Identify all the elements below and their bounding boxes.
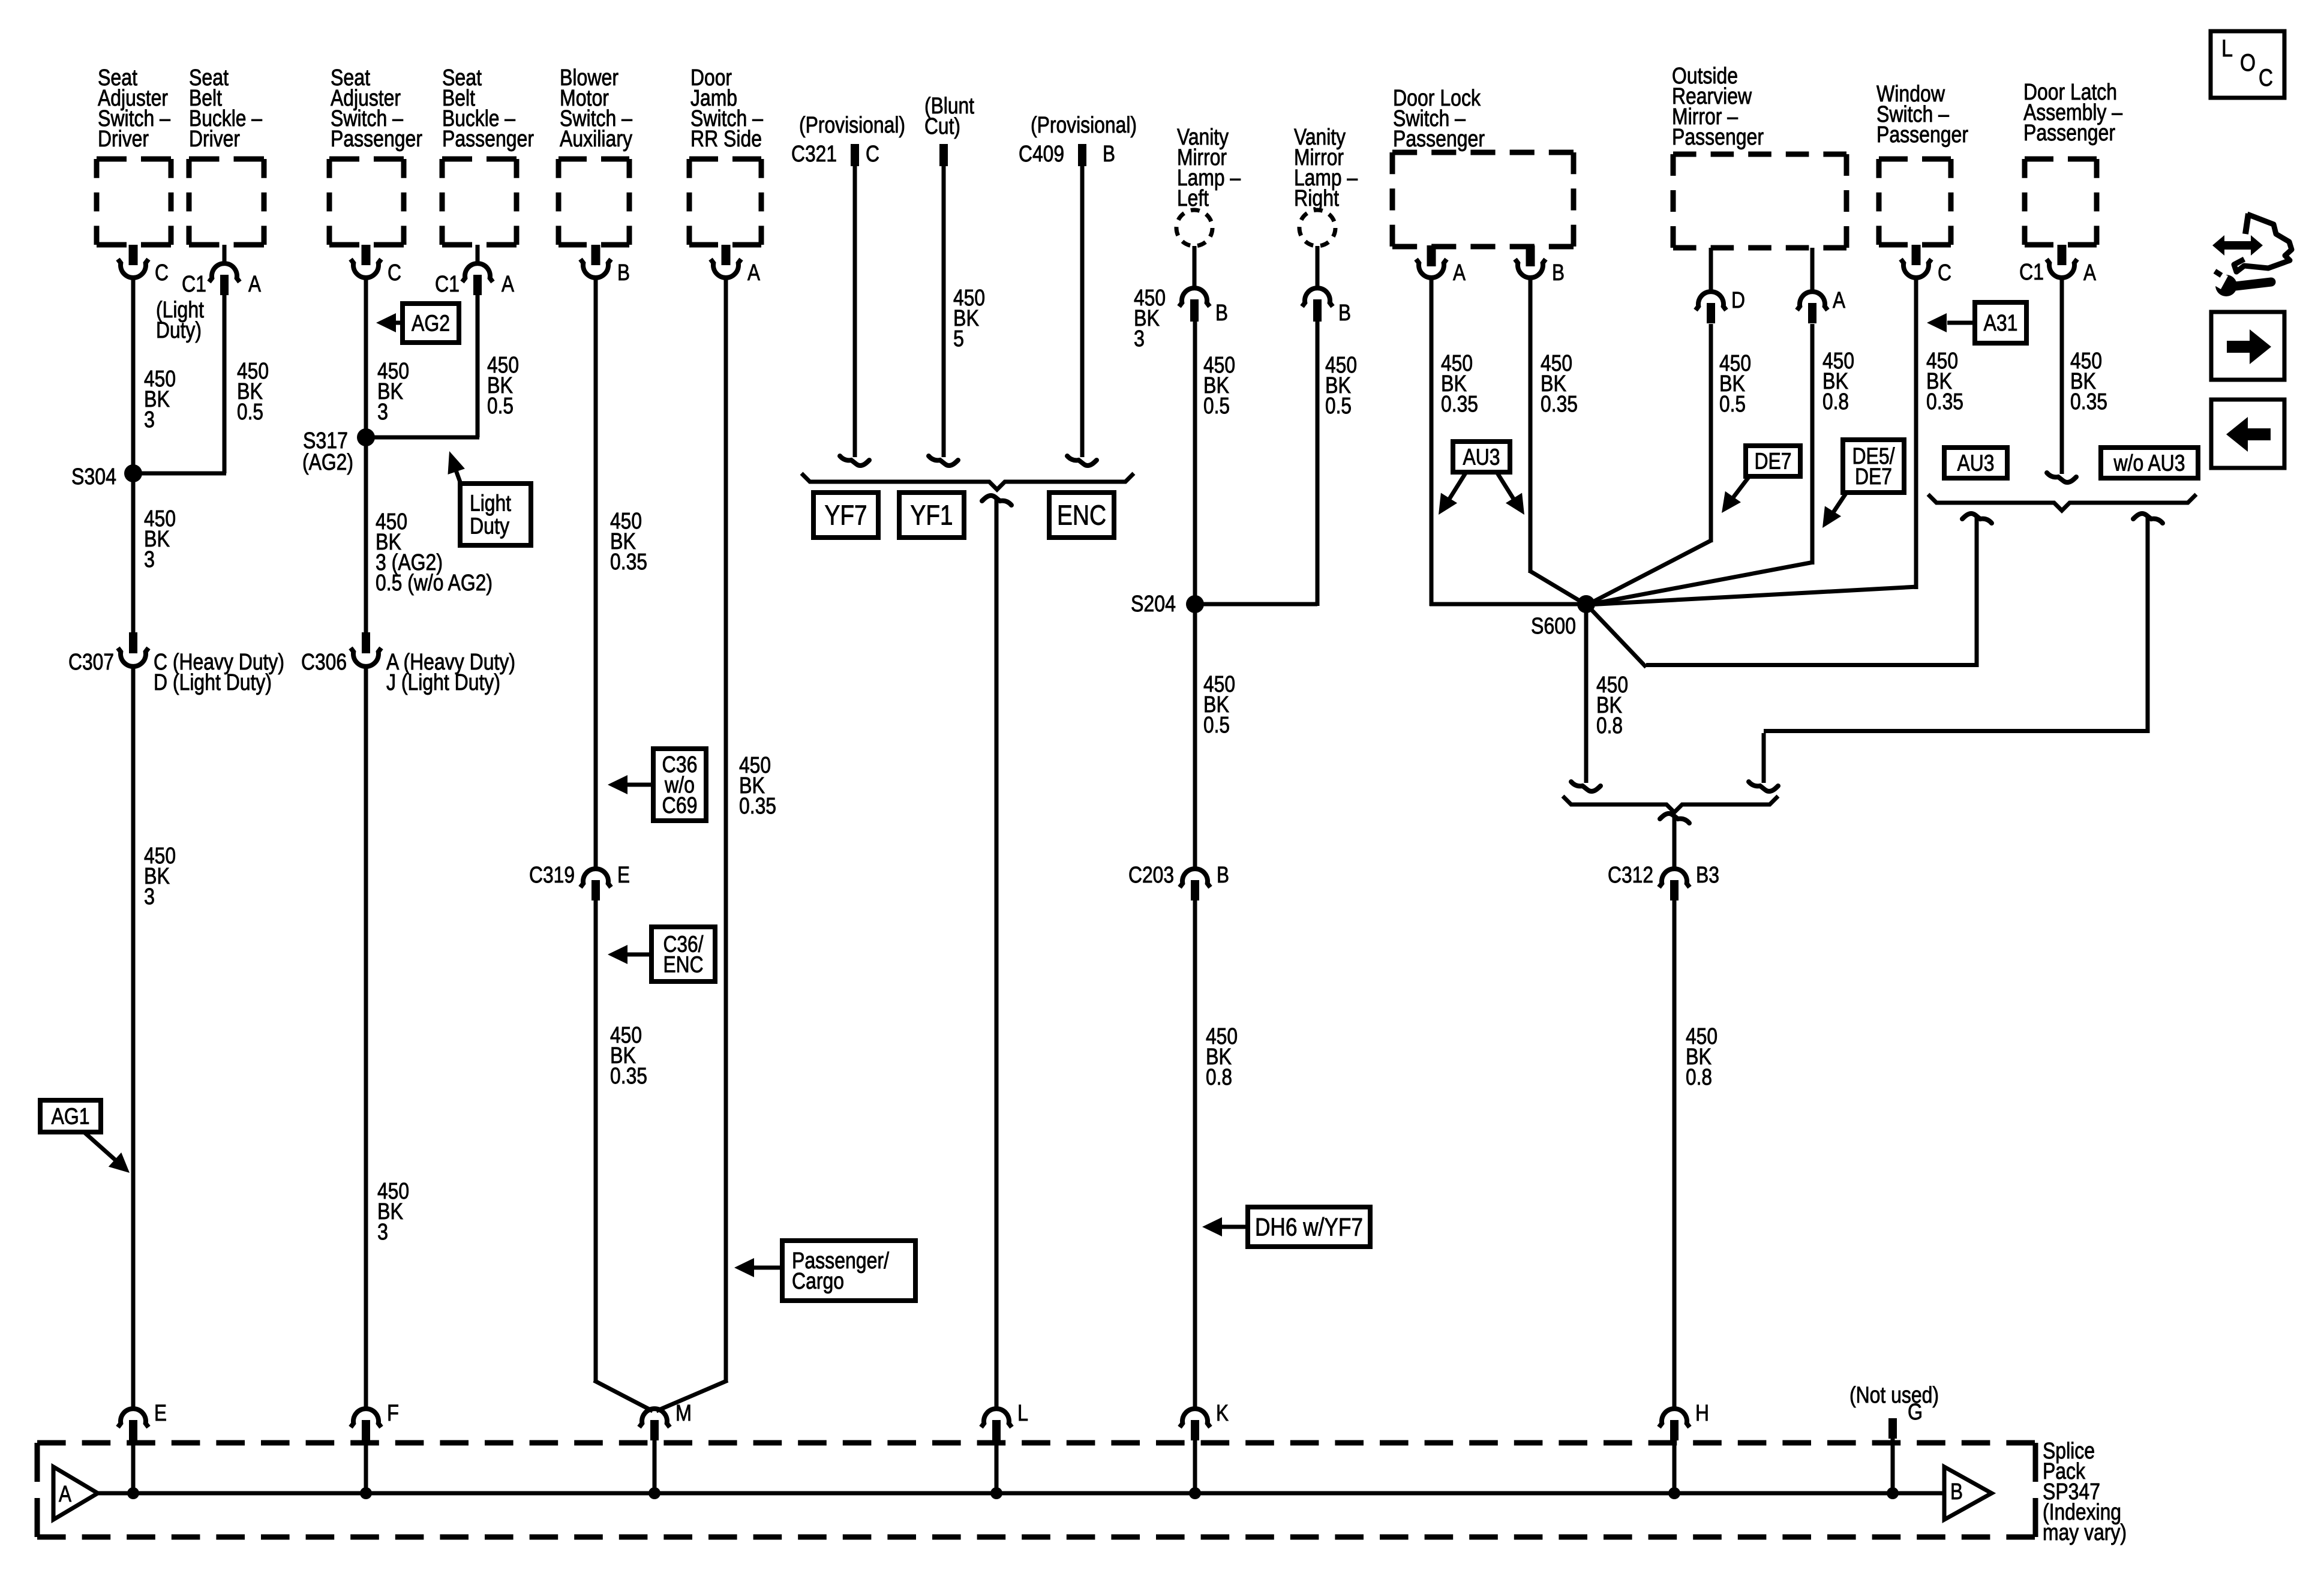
svg-text:G: G bbox=[1908, 1400, 1923, 1425]
wire: Vanity Right down to S204 junction bbox=[1195, 322, 1317, 606]
splice pack pin E bbox=[118, 1401, 167, 1499]
svg-text:A: A bbox=[747, 260, 761, 286]
pin B connector (Blower Motor Switch) bbox=[581, 245, 630, 286]
svg-text:Light: Light bbox=[470, 491, 511, 517]
wire: C203 down to pin K bbox=[1193, 900, 1197, 1409]
option box AU3 (right) bbox=[1944, 448, 2007, 478]
svg-text:B: B bbox=[1215, 301, 1228, 326]
svg-text:3: 3 bbox=[377, 1220, 388, 1245]
label: Door Latch Assembly - Passenger bbox=[2023, 80, 2123, 146]
reference AU3 box with two arrows (door lock wires) bbox=[1439, 442, 1524, 515]
svg-text:M: M bbox=[675, 1401, 692, 1426]
splice pack pin G (not used) bbox=[1849, 1383, 1939, 1499]
component box: Seat Adjuster Switch - Passenger bbox=[329, 159, 404, 245]
wire label 450 BK 0.35 (door lock A) bbox=[1441, 351, 1478, 417]
reference A31 box with arrow bbox=[1927, 302, 2026, 343]
wire: C409 down bbox=[1067, 166, 1097, 466]
wire: S600 diagonal to AU3 branch riser bbox=[1585, 516, 1977, 667]
svg-text:Passenger: Passenger bbox=[1393, 127, 1485, 152]
inline connector C203 pin B bbox=[1128, 863, 1229, 900]
svg-text:Passenger: Passenger bbox=[1876, 122, 1968, 148]
svg-text:C1: C1 bbox=[182, 272, 206, 297]
label: Door Lock Switch - Passenger bbox=[1393, 86, 1485, 152]
wire: Vanity Left down through S204 to C203 bbox=[1193, 322, 1197, 870]
label: Blower Motor Switch - Auxiliary bbox=[560, 65, 633, 152]
svg-text:Duty): Duty) bbox=[156, 318, 202, 343]
svg-text:3: 3 bbox=[144, 547, 155, 572]
svg-text:E: E bbox=[617, 863, 630, 888]
blunt-cut terminal bbox=[939, 144, 948, 166]
reference box C36/ENC with arrow bbox=[608, 927, 715, 981]
reference box C36 w/o C69 with arrow bbox=[608, 749, 706, 821]
svg-text:AG1: AG1 bbox=[52, 1104, 90, 1130]
svg-text:0.5: 0.5 bbox=[1203, 713, 1230, 738]
wire: Blower pin B down to C319 bbox=[594, 278, 598, 870]
svg-text:0.8: 0.8 bbox=[1822, 389, 1849, 415]
label: Door Jamb Switch - RR Side bbox=[690, 65, 764, 152]
svg-text:Cut): Cut) bbox=[924, 114, 960, 139]
splice pack pin K bbox=[1180, 1401, 1229, 1499]
option box YF7 bbox=[813, 493, 878, 538]
wire label 450 BK 0.5 (passenger buckle) bbox=[487, 353, 519, 419]
svg-text:Passenger: Passenger bbox=[442, 127, 534, 152]
label: Seat Belt Buckle - Passenger bbox=[442, 65, 534, 152]
svg-text:0.5: 0.5 bbox=[1203, 394, 1230, 419]
pin B connector (Vanity Mirror Lamp - Left) bbox=[1179, 246, 1229, 326]
svg-text:S304: S304 bbox=[71, 464, 116, 490]
wire: Seat Belt Buckle Passenger pin A down bbox=[476, 294, 480, 437]
svg-text:D (Light Duty): D (Light Duty) bbox=[154, 670, 272, 695]
legend box: arrow left bbox=[2211, 400, 2284, 468]
svg-text:Passenger: Passenger bbox=[2023, 121, 2115, 146]
blunt terminal C409 pin B bbox=[1019, 142, 1115, 167]
component circle: Vanity Mirror Lamp - Left bbox=[1176, 210, 1212, 246]
splice pack dashed box bbox=[37, 1443, 2035, 1537]
svg-text:F: F bbox=[387, 1401, 399, 1426]
reference Passenger/Cargo box with arrow bbox=[734, 1241, 915, 1301]
wire: C307 to splice pack pin E bbox=[131, 667, 136, 1409]
component box: Window Switch - Passenger bbox=[1879, 159, 1951, 245]
brace grouping at S600/AU3 junction to C312 bbox=[1563, 796, 1778, 812]
svg-text:C: C bbox=[2259, 65, 2273, 91]
svg-text:0.8: 0.8 bbox=[1596, 713, 1623, 739]
wire label 450 BK 0.5 (ORM D) bbox=[1719, 351, 1751, 417]
component box: Door Lock Switch - Passenger bbox=[1392, 152, 1574, 247]
inline connector C319 pin E bbox=[529, 863, 630, 900]
wire: brace to splice pack pin L bbox=[982, 496, 1011, 1409]
label: Splice Pack SP347 (Indexing may vary) bbox=[2043, 1439, 2127, 1545]
pin A connector (Door Jamb Switch) bbox=[711, 245, 761, 286]
svg-text:C409: C409 bbox=[1019, 142, 1064, 167]
svg-text:0.8: 0.8 bbox=[1206, 1065, 1232, 1090]
wire: C312 down to pin H bbox=[1673, 900, 1677, 1409]
reference Light Duty box with arrow bbox=[448, 451, 532, 545]
wire label 450 BK 3(AG2) 0.5(w/o AG2) bbox=[376, 509, 493, 596]
svg-text:5: 5 bbox=[953, 326, 964, 352]
wire: blunt cut down bbox=[929, 166, 958, 466]
svg-text:3: 3 bbox=[144, 884, 155, 909]
svg-text:C312: C312 bbox=[1608, 863, 1653, 888]
brace grouping AU3 / w/o AU3 options bbox=[1928, 494, 2196, 511]
wire label 450 BK 0.5 (vanity left) bbox=[1203, 353, 1235, 419]
wire label 450 BK 0.5 (vanity right) bbox=[1325, 353, 1357, 419]
blunt terminal C321 pin C bbox=[791, 142, 879, 167]
svg-text:YF1: YF1 bbox=[911, 500, 953, 531]
wire: S317 horizontal joining bbox=[364, 436, 479, 440]
wire label 450 BK 3 (C409) bbox=[1134, 286, 1166, 352]
splice pack pin H bbox=[1659, 1401, 1710, 1499]
svg-text:A: A bbox=[502, 272, 515, 297]
svg-text:3: 3 bbox=[377, 400, 388, 425]
pin C connector (Seat Adjuster Switch - Passenger) bbox=[351, 245, 402, 286]
wire label 450 BK 0.5 (below S204) bbox=[1203, 672, 1235, 738]
component box: Seat Adjuster Switch - Driver bbox=[97, 159, 171, 245]
pin A connector C1 (Seat Belt Buckle - Passenger) bbox=[435, 245, 515, 297]
label: Seat Adjuster Switch - Driver bbox=[98, 65, 171, 152]
inline connector C307 bbox=[68, 632, 284, 695]
wire: C306 to splice pack pin F bbox=[364, 667, 368, 1409]
svg-text:B: B bbox=[1103, 142, 1115, 167]
svg-text:C306: C306 bbox=[301, 650, 347, 675]
pin B connector (Vanity Mirror Lamp - Right) bbox=[1302, 246, 1352, 326]
bus wire inside splice pack SP347 bbox=[98, 1491, 1944, 1496]
wire label 450 BK 3 (to pin F) bbox=[377, 1179, 409, 1245]
svg-text:K: K bbox=[1216, 1401, 1229, 1426]
inline connector C306 bbox=[301, 632, 515, 695]
wire label 450 BK 0.35 (window switch) bbox=[1926, 349, 1963, 415]
legend box: arrow right bbox=[2211, 312, 2284, 380]
wire: ORM pin A down and diagonal to S600 bbox=[1587, 324, 1813, 605]
component box: Door Jamb Switch - RR Side bbox=[689, 159, 761, 245]
svg-text:C: C bbox=[388, 260, 401, 286]
note: (Light Duty) at C1 bbox=[156, 298, 204, 343]
svg-text:0.35: 0.35 bbox=[739, 794, 776, 819]
svg-text:RR Side: RR Side bbox=[690, 127, 762, 152]
svg-text:w/o AU3: w/o AU3 bbox=[2113, 451, 2185, 476]
svg-text:0.35: 0.35 bbox=[610, 1064, 647, 1089]
svg-text:Auxiliary: Auxiliary bbox=[560, 127, 632, 152]
svg-text:O: O bbox=[2240, 50, 2256, 76]
wire label 450 BK 0.8 (ORM A) bbox=[1822, 349, 1854, 415]
component box: Door Latch Assembly - Passenger bbox=[2025, 159, 2097, 245]
wire: ORM pin D down and diagonal to S600 bbox=[1587, 324, 1712, 605]
svg-text:S600: S600 bbox=[1531, 614, 1576, 639]
wire: lower brace to C312 bbox=[1660, 813, 1689, 870]
svg-text:0.35: 0.35 bbox=[1541, 392, 1578, 417]
node S304 bbox=[71, 464, 142, 490]
svg-text:Driver: Driver bbox=[189, 127, 240, 152]
svg-text:ENC: ENC bbox=[1057, 500, 1106, 531]
wire: C321 down bbox=[840, 166, 869, 466]
svg-text:AU3: AU3 bbox=[1463, 445, 1500, 470]
svg-text:0.5: 0.5 bbox=[1325, 394, 1352, 419]
svg-text:DE7: DE7 bbox=[1855, 464, 1892, 490]
svg-text:(Provisional): (Provisional) bbox=[799, 113, 905, 138]
svg-text:C: C bbox=[1938, 260, 1951, 286]
svg-text:C321: C321 bbox=[791, 142, 837, 167]
wire: Door Lock pin A down and right to S600 bbox=[1430, 278, 1586, 606]
svg-text:Passenger: Passenger bbox=[1672, 125, 1764, 150]
wire label 450 BK 5 (blunt cut) bbox=[953, 286, 985, 352]
svg-text:0.35: 0.35 bbox=[1441, 392, 1478, 417]
wire label 450 BK 0.35 (door lock B) bbox=[1541, 351, 1578, 417]
svg-text:A: A bbox=[59, 1482, 72, 1507]
svg-text:AG2: AG2 bbox=[412, 311, 450, 337]
splice pack output triangle B bbox=[1944, 1467, 1992, 1520]
svg-text:0.8: 0.8 bbox=[1686, 1065, 1712, 1090]
wire: Window Switch pin C down and diagonal to S600 bbox=[1587, 278, 1917, 605]
wire: S600 down to brace bbox=[1571, 604, 1601, 791]
label: Window Switch - Passenger bbox=[1876, 82, 1968, 148]
wire label 450 BK 0.35 (door latch) bbox=[2070, 349, 2107, 415]
pin C connector (Seat Adjuster Switch - Driver) bbox=[118, 245, 169, 286]
svg-text:(Provisional): (Provisional) bbox=[1031, 113, 1137, 138]
component box: Seat Belt Buckle - Driver bbox=[189, 159, 264, 245]
wire: S304 horizontal joining bbox=[131, 472, 226, 476]
wire label 450 BK 3 (below S304) bbox=[144, 506, 176, 572]
svg-text:(AG2): (AG2) bbox=[302, 450, 353, 475]
node S600 bbox=[1531, 595, 1595, 639]
svg-text:0.5 (w/o AG2): 0.5 (w/o AG2) bbox=[376, 571, 493, 596]
svg-text:Duty: Duty bbox=[470, 514, 509, 539]
svg-text:0.35: 0.35 bbox=[2070, 389, 2107, 415]
svg-text:C319: C319 bbox=[529, 863, 575, 888]
component box: Outside Rearview Mirror - Passenger bbox=[1673, 154, 1846, 248]
wire label 450 BK 0.5 (driver buckle) bbox=[237, 359, 269, 425]
svg-text:C1: C1 bbox=[2019, 260, 2044, 285]
pin A connector (Outside Rearview Mirror) bbox=[1797, 248, 1846, 323]
label: Vanity Mirror Lamp - Right bbox=[1294, 125, 1358, 211]
svg-text:A: A bbox=[2083, 260, 2097, 286]
svg-text:YF7: YF7 bbox=[825, 500, 867, 531]
svg-text:A: A bbox=[248, 272, 262, 297]
node S317 (AG2) bbox=[302, 428, 375, 475]
svg-text:C: C bbox=[155, 260, 169, 286]
label: Outside Rearview Mirror - Passenger bbox=[1672, 64, 1764, 150]
wire: C319 down to pin M bbox=[594, 900, 653, 1411]
svg-text:B3: B3 bbox=[1696, 863, 1719, 888]
svg-text:DH6 w/YF7: DH6 w/YF7 bbox=[1255, 1213, 1363, 1241]
wire: Door Jamb pin A down to pin M bbox=[656, 278, 728, 1411]
wire label 450 BK 0.35 (door jamb) bbox=[739, 753, 776, 819]
svg-text:D: D bbox=[1731, 288, 1745, 313]
wire: Seat Adjuster Driver pin C down through S304 to C307 bbox=[131, 278, 136, 634]
svg-text:Cargo: Cargo bbox=[792, 1269, 844, 1294]
svg-text:0.5: 0.5 bbox=[1719, 392, 1746, 417]
splice pack input triangle A bbox=[53, 1467, 98, 1520]
svg-text:(Not used): (Not used) bbox=[1849, 1383, 1939, 1408]
svg-text:C69: C69 bbox=[662, 793, 698, 818]
svg-text:A31: A31 bbox=[1984, 311, 2018, 336]
svg-text:B: B bbox=[1552, 260, 1565, 286]
splice pack pin M bbox=[639, 1401, 692, 1499]
brace grouping provisional wires bbox=[801, 473, 1134, 490]
label: Seat Belt Buckle - Driver bbox=[189, 65, 263, 152]
wire label 450 BK 3 (driver adjuster) bbox=[144, 367, 176, 433]
inline connector C312 pin B3 bbox=[1608, 863, 1719, 900]
svg-text:AU3: AU3 bbox=[1957, 451, 1995, 476]
wire: Door Latch pin A down to brace bbox=[2047, 278, 2076, 482]
reference AG2 box with arrow bbox=[376, 304, 459, 343]
wire: AU3 branch hook below brace bbox=[1962, 514, 1992, 523]
svg-text:0.5: 0.5 bbox=[487, 394, 514, 419]
reference DE7 box with arrow bbox=[1722, 446, 1800, 513]
pin B connector (Door Lock Switch) bbox=[1515, 245, 1565, 286]
wire label 450 BK 0.35 (to pin M) bbox=[610, 1023, 647, 1089]
component box: Seat Belt Buckle - Passenger bbox=[442, 159, 517, 245]
svg-text:A: A bbox=[1453, 260, 1466, 286]
wire label 450 BK 3 (to pin E) bbox=[144, 843, 176, 909]
wire label 450 BK 0.8 (below S600) bbox=[1596, 673, 1628, 739]
reference DH6 w/YF7 box with arrow bbox=[1202, 1207, 1370, 1247]
pin D connector (Outside Rearview Mirror) bbox=[1696, 248, 1746, 323]
option box YF1 bbox=[899, 493, 964, 538]
svg-text:Passenger: Passenger bbox=[331, 127, 422, 152]
svg-text:B: B bbox=[617, 260, 630, 286]
reference AG1 box with arrow bbox=[40, 1100, 130, 1173]
svg-text:Driver: Driver bbox=[98, 127, 149, 152]
wire: Seat Belt Buckle Driver pin A down bbox=[223, 294, 227, 473]
svg-text:B: B bbox=[1217, 863, 1229, 888]
svg-text:ENC: ENC bbox=[663, 953, 704, 978]
svg-text:0.35: 0.35 bbox=[610, 550, 647, 575]
icon: component location (double arrow, part outline, wrench) bbox=[2206, 214, 2292, 296]
option box ENC bbox=[1049, 493, 1114, 538]
svg-text:3: 3 bbox=[144, 407, 155, 433]
svg-text:A: A bbox=[1833, 288, 1846, 313]
label: (Provisional) C409 bbox=[1031, 113, 1137, 138]
svg-text:C307: C307 bbox=[68, 650, 114, 675]
wire label 450 BK 0.8 (to pin H) bbox=[1686, 1024, 1718, 1090]
svg-text:B: B bbox=[1950, 1479, 1963, 1505]
svg-text:L: L bbox=[1017, 1401, 1028, 1426]
wire: Seat Adjuster Passenger pin C down through S317 to C306 bbox=[364, 278, 368, 634]
splice pack pin F bbox=[351, 1401, 400, 1499]
svg-text:C1: C1 bbox=[435, 272, 460, 297]
svg-text:S204: S204 bbox=[1131, 592, 1176, 617]
wire: w/o AU3 branch hook and route to lower brace bbox=[1749, 514, 2163, 791]
svg-text:E: E bbox=[154, 1401, 167, 1426]
svg-text:0.35: 0.35 bbox=[1926, 389, 1963, 415]
svg-text:0.5: 0.5 bbox=[237, 400, 263, 425]
pin A connector (Door Lock Switch) bbox=[1416, 245, 1466, 286]
pin A connector C1 (Door Latch Assembly) bbox=[2019, 245, 2097, 286]
label: Seat Adjuster Switch - Passenger bbox=[331, 65, 422, 152]
node S204 bbox=[1131, 592, 1204, 617]
legend LOC box bbox=[2211, 31, 2284, 98]
label: (Blunt Cut) bbox=[924, 94, 974, 139]
wire: Door Lock pin B down and diagonal to S600 bbox=[1529, 278, 1587, 605]
wire label 450 BK 0.35 (blower upper) bbox=[610, 509, 647, 575]
svg-text:L: L bbox=[2221, 35, 2233, 62]
pin C connector (Window Switch) bbox=[1901, 245, 1952, 286]
option box w/o AU3 bbox=[2101, 448, 2198, 478]
pin A connector C1 (Seat Belt Buckle - Driver) bbox=[182, 245, 262, 297]
svg-text:B: B bbox=[1338, 301, 1351, 326]
svg-text:may vary): may vary) bbox=[2043, 1520, 2127, 1545]
component circle: Vanity Mirror Lamp - Right bbox=[1299, 210, 1335, 246]
svg-text:C203: C203 bbox=[1128, 863, 1174, 888]
svg-text:C: C bbox=[866, 142, 879, 167]
component box: Blower Motor Switch - Auxiliary bbox=[559, 159, 629, 245]
svg-text:3: 3 bbox=[1134, 326, 1145, 352]
splice pack pin L bbox=[981, 1401, 1029, 1499]
wire label 450 BK 0.8 (to pin K) bbox=[1206, 1024, 1238, 1090]
svg-text:H: H bbox=[1695, 1401, 1709, 1426]
label: Vanity Mirror Lamp - Left bbox=[1177, 125, 1241, 211]
reference DE5/DE7 box with arrow bbox=[1822, 440, 1904, 528]
svg-text:Right: Right bbox=[1294, 186, 1339, 211]
svg-text:J (Light Duty): J (Light Duty) bbox=[386, 670, 500, 695]
svg-text:DE7: DE7 bbox=[1755, 449, 1792, 475]
wire label 450 BK 3 (passenger adjuster) bbox=[377, 359, 409, 425]
svg-text:Left: Left bbox=[1177, 186, 1209, 211]
label: (Provisional) C321 bbox=[799, 113, 905, 138]
